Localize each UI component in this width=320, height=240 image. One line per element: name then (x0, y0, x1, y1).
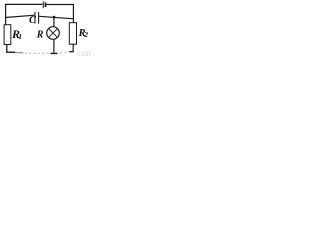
capacitor C left plate (34, 12, 36, 24)
wire capacitor branch right (39, 16, 74, 19)
wire bottom gray segment left (15, 51, 24, 53)
battery E long plate (42, 1, 44, 8)
lamp R circle (47, 27, 60, 40)
battery E short thick plate (45, 2, 47, 7)
wire below R2 (72, 44, 74, 52)
wire bottom faint dashed (7, 52, 73, 54)
capacitor C right plate (38, 12, 40, 24)
wire bottom-left dark segment (6, 51, 15, 53)
wire top-left segment (5, 3, 42, 5)
svg-text:com: com (77, 49, 91, 58)
node junction dot (53, 16, 56, 19)
svg-text:C: C (29, 15, 37, 26)
svg-text:R: R (36, 30, 44, 41)
wire bottom dark segment under lamp (50, 53, 57, 55)
wire bottom-right dark segment (69, 51, 73, 53)
wire below R1 (6, 45, 8, 53)
wire capacitor branch left (5, 15, 35, 17)
wire right rail upper (72, 4, 74, 23)
wire lamp branch lower (53, 39, 55, 54)
wire top-right segment (46, 4, 74, 6)
lamp R cross (49, 29, 58, 38)
resistor R1 box (4, 25, 11, 45)
svg-text:1: 1 (18, 32, 22, 41)
svg-text:2: 2 (83, 30, 88, 39)
resistor R2 box (69, 23, 76, 45)
wire left rail (5, 4, 7, 25)
wire lamp branch upper (53, 17, 55, 27)
